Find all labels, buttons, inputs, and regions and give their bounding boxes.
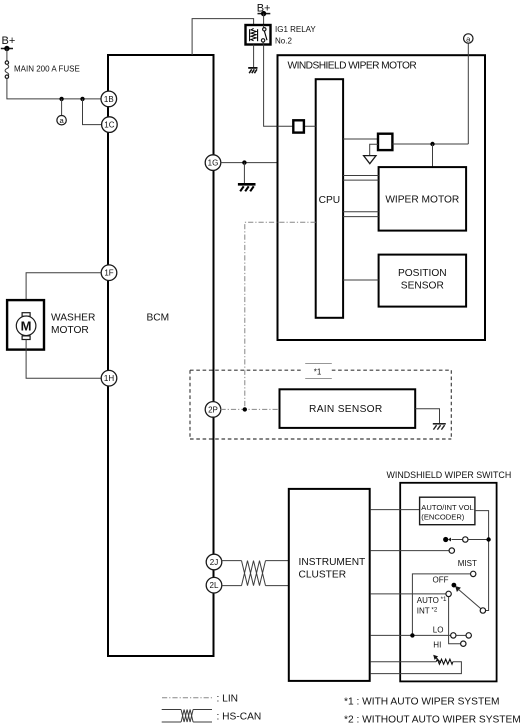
- svg-text:MIST: MIST: [458, 559, 477, 568]
- svg-text:WINDSHIELD WIPER MOTOR: WINDSHIELD WIPER MOTOR: [288, 61, 417, 72]
- twisted pair HS-CAN (2J line): [242, 561, 266, 586]
- svg-text:RAIN SENSOR: RAIN SENSOR: [309, 404, 383, 415]
- wire connector to wiper motor and node a: [392, 143, 468, 145]
- node B+ (battery feed, top left): [1, 35, 15, 51]
- svg-text:*1: *1: [314, 367, 322, 376]
- svg-text:: HS-CAN: : HS-CAN: [217, 712, 262, 723]
- svg-text:HI: HI: [433, 641, 441, 650]
- wire B+ to relay: [263, 14, 265, 25]
- sensor POSITION SENSOR: [379, 255, 467, 307]
- node B+ (top, above IG1 relay): [257, 2, 271, 16]
- svg-text:INSTRUMENT: INSTRUMENT: [299, 557, 366, 568]
- contact OFF: [471, 571, 476, 576]
- svg-text:1F: 1F: [104, 269, 113, 278]
- junction (ground tap): [242, 160, 246, 164]
- junction (LIN tap): [243, 407, 247, 411]
- resistor R1 (intermittent time, variable): [433, 655, 453, 664]
- contact AUTO/INT: [446, 591, 451, 596]
- contact LO (pair): [451, 633, 472, 638]
- wire LIN rain sensor to CPU (dash-dot): [245, 222, 316, 409]
- svg-text:BCM: BCM: [147, 313, 170, 324]
- svg-text:1B: 1B: [104, 95, 114, 104]
- wire CPU to position sensor: [343, 279, 379, 281]
- svg-text:WASHER: WASHER: [51, 313, 95, 324]
- wire 1G to wiper motor case: [221, 162, 278, 164]
- option frame *1 (dashed, with auto wiper system): [190, 363, 451, 439]
- wire pair CPU to wiper motor (upper): [343, 175, 379, 177]
- wire relay output to CPU (through connector): [264, 45, 316, 127]
- svg-text:LO: LO: [433, 625, 444, 634]
- junction (wiper motor tap): [430, 142, 434, 146]
- svg-text:1H: 1H: [104, 374, 114, 383]
- module box INSTRUMENT CLUSTER: [289, 489, 370, 681]
- wire junction down to wiper motor: [432, 144, 434, 167]
- rotary switch arm (wiper control): [452, 583, 486, 614]
- terminal 1H: [101, 370, 117, 386]
- svg-text:B+: B+: [2, 35, 16, 47]
- wire B+ to fuse: [6, 49, 8, 62]
- contact MIST: [449, 548, 454, 553]
- sensor RAIN SENSOR: [280, 389, 416, 428]
- svg-text:CPU: CPU: [319, 195, 341, 206]
- svg-text:MAIN 200 A FUSE: MAIN 200 A FUSE: [14, 65, 80, 74]
- wire junction to ground: [243, 163, 245, 183]
- connector square (motor output): [378, 134, 392, 150]
- wire relay coil to ground: [253, 45, 255, 68]
- terminal 1G: [205, 155, 221, 171]
- wire LIN 2P to rain sensor (dash-dot): [221, 408, 280, 410]
- svg-text:2P: 2P: [208, 405, 218, 414]
- motor M1 WASHER MOTOR: [7, 300, 44, 350]
- ground (below 1G wire): [238, 184, 256, 191]
- wire relay coil feed (BCM top to IG1 relay): [192, 19, 254, 55]
- svg-text:POSITION: POSITION: [398, 268, 447, 279]
- svg-text:CLUSTER: CLUSTER: [299, 570, 347, 581]
- connector square (relay feed): [293, 120, 304, 132]
- terminal 1F: [101, 265, 117, 281]
- terminal 2L: [206, 577, 222, 593]
- ground (below IG1 relay): [248, 68, 257, 73]
- wire fuse to terminal 1B: [7, 78, 101, 99]
- motor M2 WIPER MOTOR: [379, 167, 467, 231]
- wire relay output inside motor box: [278, 125, 316, 127]
- svg-text:M: M: [21, 319, 32, 334]
- fuse F1 MAIN 200 A FUSE: [5, 61, 80, 79]
- wire 1F to washer motor: [26, 273, 101, 313]
- wire junction to terminal 1C: [83, 99, 102, 125]
- wire cluster to LO contact: [371, 634, 451, 636]
- wire cluster to encoder: [371, 509, 420, 511]
- terminal 1C: [102, 117, 118, 133]
- wire up to node a: [467, 43, 469, 144]
- wire cluster to intermittent resistor: [371, 661, 437, 663]
- encoder AUTO/INT VOL (ENCODER): [420, 497, 475, 525]
- wire 2L to twisted pair: [221, 585, 242, 587]
- svg-text:MOTOR: MOTOR: [51, 325, 89, 336]
- wire encoder to switch common: [475, 511, 489, 611]
- svg-text:2L: 2L: [210, 581, 219, 590]
- legend LIN (dash-dot sample): [162, 697, 214, 699]
- wire branch to arrow marker: [370, 144, 378, 155]
- svg-text:OFF: OFF: [433, 576, 449, 585]
- terminal 1B: [101, 91, 117, 107]
- arrow marker (open triangle down): [364, 156, 376, 164]
- svg-text:No.2: No.2: [275, 36, 292, 45]
- svg-text:2J: 2J: [210, 558, 218, 567]
- wire 2J to twisted pair: [221, 560, 242, 562]
- wire pair CPU to wiper motor (lower): [343, 211, 379, 213]
- relay K1 IG1 RELAY No.2: [246, 25, 317, 45]
- wire resistor return to cluster: [371, 662, 462, 674]
- terminal 2P: [205, 402, 221, 418]
- svg-text:1G: 1G: [208, 159, 219, 168]
- wire twisted pair to instrument cluster (upper): [266, 560, 289, 562]
- ground (rain sensor): [433, 424, 446, 430]
- wire AUTO contact to HI contact: [449, 597, 461, 644]
- junction (OFF wire joins LO wire): [410, 633, 414, 637]
- wire CPU to output connector: [343, 138, 378, 140]
- svg-text:*1 : WITH AUTO WIPER SYSTEM: *1 : WITH AUTO WIPER SYSTEM: [344, 696, 499, 707]
- junction (branch to 1C): [80, 97, 84, 101]
- junction (switch common): [486, 537, 490, 541]
- terminal 2J: [206, 554, 222, 570]
- switch SW1 MIST (spring return): [443, 537, 489, 542]
- svg-text:*2 : WITHOUT AUTO WIPER SYSTEM: *2 : WITHOUT AUTO WIPER SYSTEM: [344, 715, 521, 726]
- svg-text:SENSOR: SENSOR: [401, 281, 444, 292]
- svg-text:WIPER MOTOR: WIPER MOTOR: [385, 195, 459, 206]
- wire OFF contact to LO row: [412, 574, 470, 636]
- switch box WINDSHIELD WIPER SWITCH: [400, 483, 496, 682]
- svg-text:IG1 RELAY: IG1 RELAY: [275, 25, 316, 34]
- module box WINDSHIELD WIPER MOTOR: [278, 55, 486, 340]
- contact HI: [461, 641, 466, 646]
- twisted pair HS-CAN (2L line): [242, 561, 266, 586]
- wire cluster to AUTO/INT contact: [371, 593, 446, 595]
- wire cluster to MIST contact: [371, 550, 449, 552]
- op unit U1 CPU: [316, 79, 343, 318]
- wire rain sensor to ground: [415, 409, 439, 424]
- junction (wire to node a): [59, 97, 63, 101]
- svg-text:AUTO/INT VOL: AUTO/INT VOL: [421, 503, 473, 512]
- node a (connector label, top right): [464, 34, 473, 44]
- BCM module box: [108, 55, 214, 656]
- node a (connector label, left): [57, 116, 66, 126]
- wire washer motor to 1H: [26, 340, 101, 379]
- svg-text:: LIN: : LIN: [217, 694, 239, 705]
- legend HS-CAN (twisted pair sample): [162, 710, 212, 723]
- wire junction to node a: [61, 99, 63, 116]
- svg-text:(ENCODER): (ENCODER): [421, 512, 465, 521]
- svg-text:1C: 1C: [104, 121, 114, 130]
- svg-text:WINDSHIELD WIPER SWITCH: WINDSHIELD WIPER SWITCH: [387, 470, 512, 480]
- wire twisted pair to instrument cluster (lower): [266, 585, 289, 587]
